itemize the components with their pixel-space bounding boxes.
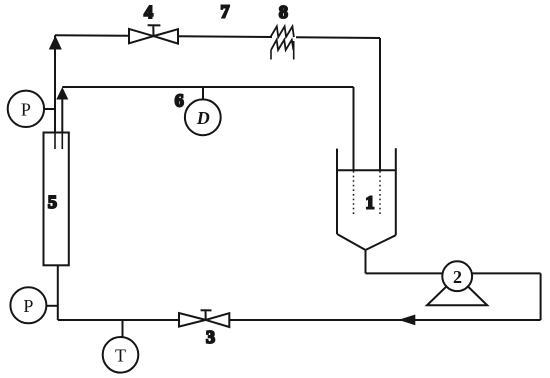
tank 1 liquid level line <box>337 169 396 171</box>
wire: bottom line, right section <box>229 319 540 321</box>
heater 8: lower sawtooth element <box>271 40 293 50</box>
wire: tank outlet drop <box>365 250 367 273</box>
svg-text:P: P <box>23 296 33 316</box>
wire: gauge P bottom stub <box>46 305 57 307</box>
gauge P bottom circle <box>10 287 46 323</box>
wire: top line, column outlet to valve 4 <box>55 34 129 37</box>
wire: second downcomer into tank 1 <box>353 87 355 170</box>
arrow: flow up into second line at column overhead <box>56 87 68 100</box>
column 5 body <box>44 133 69 266</box>
tank 1 left wall <box>336 149 338 234</box>
wire: riser from column 5 top to second line <box>61 95 63 147</box>
gauge D6 circle <box>185 99 221 135</box>
valve V4 stem <box>148 25 161 36</box>
pump 2 casing circle <box>442 261 472 291</box>
svg-text:3: 3 <box>206 327 215 347</box>
wire: column bottom to bottom line <box>57 265 59 320</box>
svg-text:T: T <box>115 345 126 365</box>
valve V3 stem <box>201 310 212 320</box>
tank 1 right wall <box>395 148 397 235</box>
valve V3 body <box>179 313 229 327</box>
arrow: flow up into top line at column overhead <box>49 36 62 50</box>
node: branch to thermometer T <box>122 320 124 337</box>
wire: bottom line, column to valve 3 <box>58 319 179 321</box>
wire: gauge P top stub <box>44 108 55 110</box>
svg-text:D: D <box>196 108 210 128</box>
svg-text:1: 1 <box>366 193 375 213</box>
gauge P top circle <box>8 91 44 127</box>
wire: right downcomer into tank 1 <box>379 38 381 170</box>
wire: top line, valve 4 to heater 8 (pipe 7) <box>178 35 272 38</box>
wire: dashed pipe continuation inside tank (right) <box>379 171 381 216</box>
valve V4 body <box>129 29 178 44</box>
heater 8: upper sawtooth element <box>271 26 294 37</box>
wire: pump suction/discharge line <box>366 272 541 274</box>
node: branch to densimeter D <box>202 87 204 100</box>
gauge T circle <box>103 337 139 373</box>
heater 8: right lead <box>293 41 295 60</box>
arrow: flow left on bottom return line <box>399 315 416 326</box>
heater 8: left lead <box>270 50 272 60</box>
tank 1 conical bottom <box>337 234 396 250</box>
svg-text:6: 6 <box>175 91 184 111</box>
svg-text:2: 2 <box>453 267 462 287</box>
wire: right return riser <box>540 273 542 320</box>
wire: riser from column 5 top to top line <box>54 35 56 147</box>
column 5 internal pipe stubs <box>55 133 62 149</box>
svg-text:7: 7 <box>221 2 230 22</box>
wire: second overhead line <box>62 86 353 88</box>
wire: top line, heater 8 to right corner <box>296 36 380 39</box>
svg-text:5: 5 <box>48 192 57 212</box>
pump 2 base triangle <box>427 276 487 305</box>
svg-text:4: 4 <box>144 2 153 22</box>
svg-text:P: P <box>21 99 31 119</box>
wire: dashed pipe continuation inside tank (left) <box>353 171 355 216</box>
svg-text:8: 8 <box>279 2 288 22</box>
